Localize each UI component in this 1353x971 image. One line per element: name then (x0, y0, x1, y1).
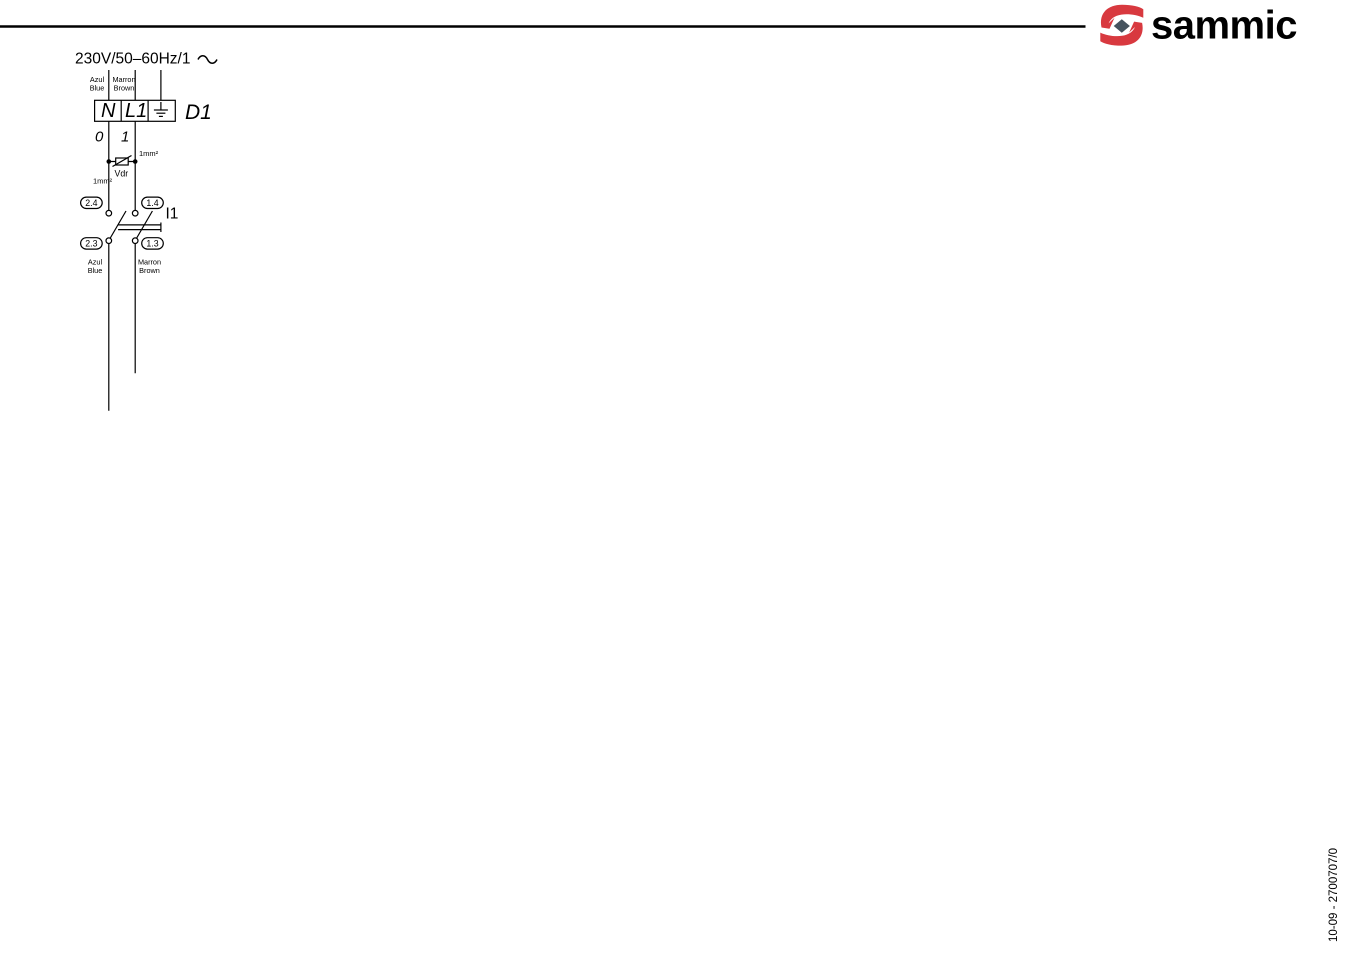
varistor Vdr (109, 156, 135, 179)
ac symbol (198, 56, 217, 64)
node 2.3 (81, 238, 103, 249)
wire mains PE stub (160, 70, 162, 100)
svg-text:1.4: 1.4 (146, 198, 158, 208)
svg-text:1.3: 1.3 (146, 239, 158, 249)
svg-text:N: N (101, 100, 116, 122)
svg-text:I1: I1 (166, 206, 179, 223)
top border line (0, 25, 1086, 28)
svg-text:1: 1 (121, 129, 129, 146)
wire L1 down to node 100 (134, 244, 136, 374)
ground symbol in D1 (154, 102, 168, 116)
svg-text:2.4: 2.4 (85, 198, 97, 208)
junction Vdr right (133, 159, 138, 164)
wire mains N stub (108, 70, 110, 100)
svg-text:1mm²: 1mm² (139, 149, 159, 158)
node 2.4 (81, 197, 103, 208)
terminal block D1 (95, 100, 176, 122)
wire N down to node 200 (108, 244, 110, 411)
svg-text:sammic: sammic (1151, 4, 1297, 48)
svg-text:Brown: Brown (139, 266, 160, 275)
junction Vdr left (107, 159, 112, 164)
svg-text:Brown: Brown (114, 84, 135, 93)
svg-text:Blue: Blue (88, 266, 103, 275)
svg-text:Blue: Blue (90, 84, 105, 93)
svg-text:D1: D1 (185, 101, 212, 124)
node 1.3 (142, 238, 164, 249)
svg-text:2.3: 2.3 (85, 239, 97, 249)
switch I1 (106, 206, 178, 244)
svg-text:0: 0 (95, 129, 104, 146)
wire mains L1 stub (134, 70, 136, 100)
node 1.4 (142, 197, 164, 208)
svg-text:Vdr: Vdr (115, 169, 129, 179)
logo sammic mark (1100, 5, 1143, 46)
wire N down (108, 121, 110, 210)
svg-text:1mm²: 1mm² (93, 177, 113, 186)
svg-text:230V/50–60Hz/1: 230V/50–60Hz/1 (75, 51, 190, 68)
wire L1 down (134, 121, 136, 210)
svg-text:10-09 - 2700707/0: 10-09 - 2700707/0 (1328, 848, 1340, 942)
svg-text:L1: L1 (125, 100, 147, 122)
